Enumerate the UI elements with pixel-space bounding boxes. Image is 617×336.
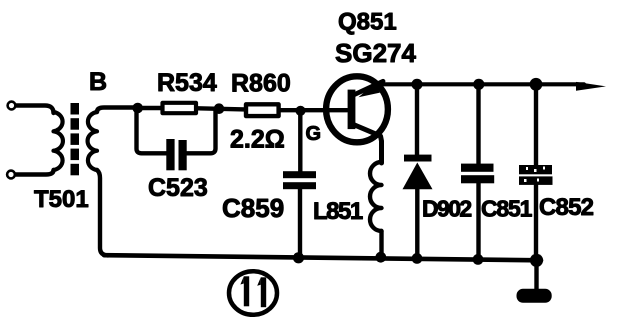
wire C523 right leg xyxy=(187,111,216,154)
reference bubble 11 xyxy=(229,271,277,315)
transistor Q851 xyxy=(326,76,388,142)
svg-text:SG274: SG274 xyxy=(335,38,416,68)
resistor R860 xyxy=(246,104,279,116)
terminal (bottom-left input) xyxy=(7,171,15,179)
svg-text:L851: L851 xyxy=(313,198,363,225)
capacitor C859 xyxy=(283,171,316,189)
node C852 top junction xyxy=(530,78,543,91)
Q851 emitter xyxy=(354,81,384,95)
diode D902 xyxy=(404,155,432,162)
node C851 bottom junction xyxy=(473,254,484,265)
wire secondary top to node A xyxy=(97,108,140,113)
wire R860 to transistor base xyxy=(281,108,347,112)
ground rail wire (bottom) xyxy=(104,255,541,260)
wire secondary bottom to ground rail xyxy=(97,170,108,255)
svg-text:B: B xyxy=(89,68,107,96)
wire node G down to C859 xyxy=(298,112,302,172)
svg-text:T501: T501 xyxy=(34,186,89,213)
wire C851 top xyxy=(476,84,480,164)
Q851 emitter arrow xyxy=(359,83,381,97)
transformer core xyxy=(71,103,80,175)
node C859 ground junction xyxy=(293,252,304,263)
wire C859 to ground rail xyxy=(298,189,302,259)
wire node A to R534 xyxy=(138,106,162,110)
node D902 top junction xyxy=(411,79,422,90)
terminal (top-left input) xyxy=(8,102,16,110)
wire R534 to node B xyxy=(198,108,245,109)
wire C851 bottom xyxy=(476,183,480,261)
svg-text:R534: R534 xyxy=(157,69,217,97)
node B (R534 right junction) xyxy=(214,103,225,114)
svg-text:G: G xyxy=(306,123,322,145)
Q851 base bar xyxy=(348,90,356,130)
top rail wire xyxy=(379,82,584,86)
inductor L851 xyxy=(370,162,382,231)
svg-text:R860: R860 xyxy=(231,70,291,98)
ground xyxy=(517,289,552,303)
output arrow xyxy=(576,82,606,91)
capacitor C851 xyxy=(461,164,494,184)
svg-text:C859: C859 xyxy=(222,193,284,223)
capacitor C852 xyxy=(519,165,553,185)
node D902 bottom junction xyxy=(412,253,423,264)
capacitor C523 xyxy=(166,139,186,170)
wire D902 bottom xyxy=(415,189,419,260)
Q851 collector xyxy=(354,125,382,164)
svg-text:D902: D902 xyxy=(422,196,471,222)
svg-text:C852: C852 xyxy=(539,194,594,221)
svg-text:C523: C523 xyxy=(148,174,208,202)
node C851 top junction xyxy=(473,79,484,90)
wire D902 top xyxy=(415,84,419,156)
wire C523 left leg xyxy=(137,110,168,153)
wire primary to bottom input xyxy=(16,170,54,175)
wire C852 to chassis ground xyxy=(534,260,538,289)
wire C852 top xyxy=(534,84,538,166)
transformer T501 secondary winding xyxy=(88,112,97,170)
svg-text:C851: C851 xyxy=(481,196,533,222)
node C852 ground rail junction xyxy=(530,254,543,267)
svg-text:Q851: Q851 xyxy=(338,9,397,36)
wire L851 to ground rail xyxy=(379,231,383,259)
node L851 ground junction xyxy=(375,252,386,263)
wire top input to primary xyxy=(17,106,54,114)
node A (R534 left junction) xyxy=(132,103,143,114)
svg-text:2.2Ω: 2.2Ω xyxy=(230,126,285,154)
node G (base / C859 junction) xyxy=(295,106,305,116)
transformer T501 primary winding xyxy=(54,112,63,170)
resistor R534 xyxy=(163,103,197,113)
wire C852 bottom xyxy=(534,185,538,262)
